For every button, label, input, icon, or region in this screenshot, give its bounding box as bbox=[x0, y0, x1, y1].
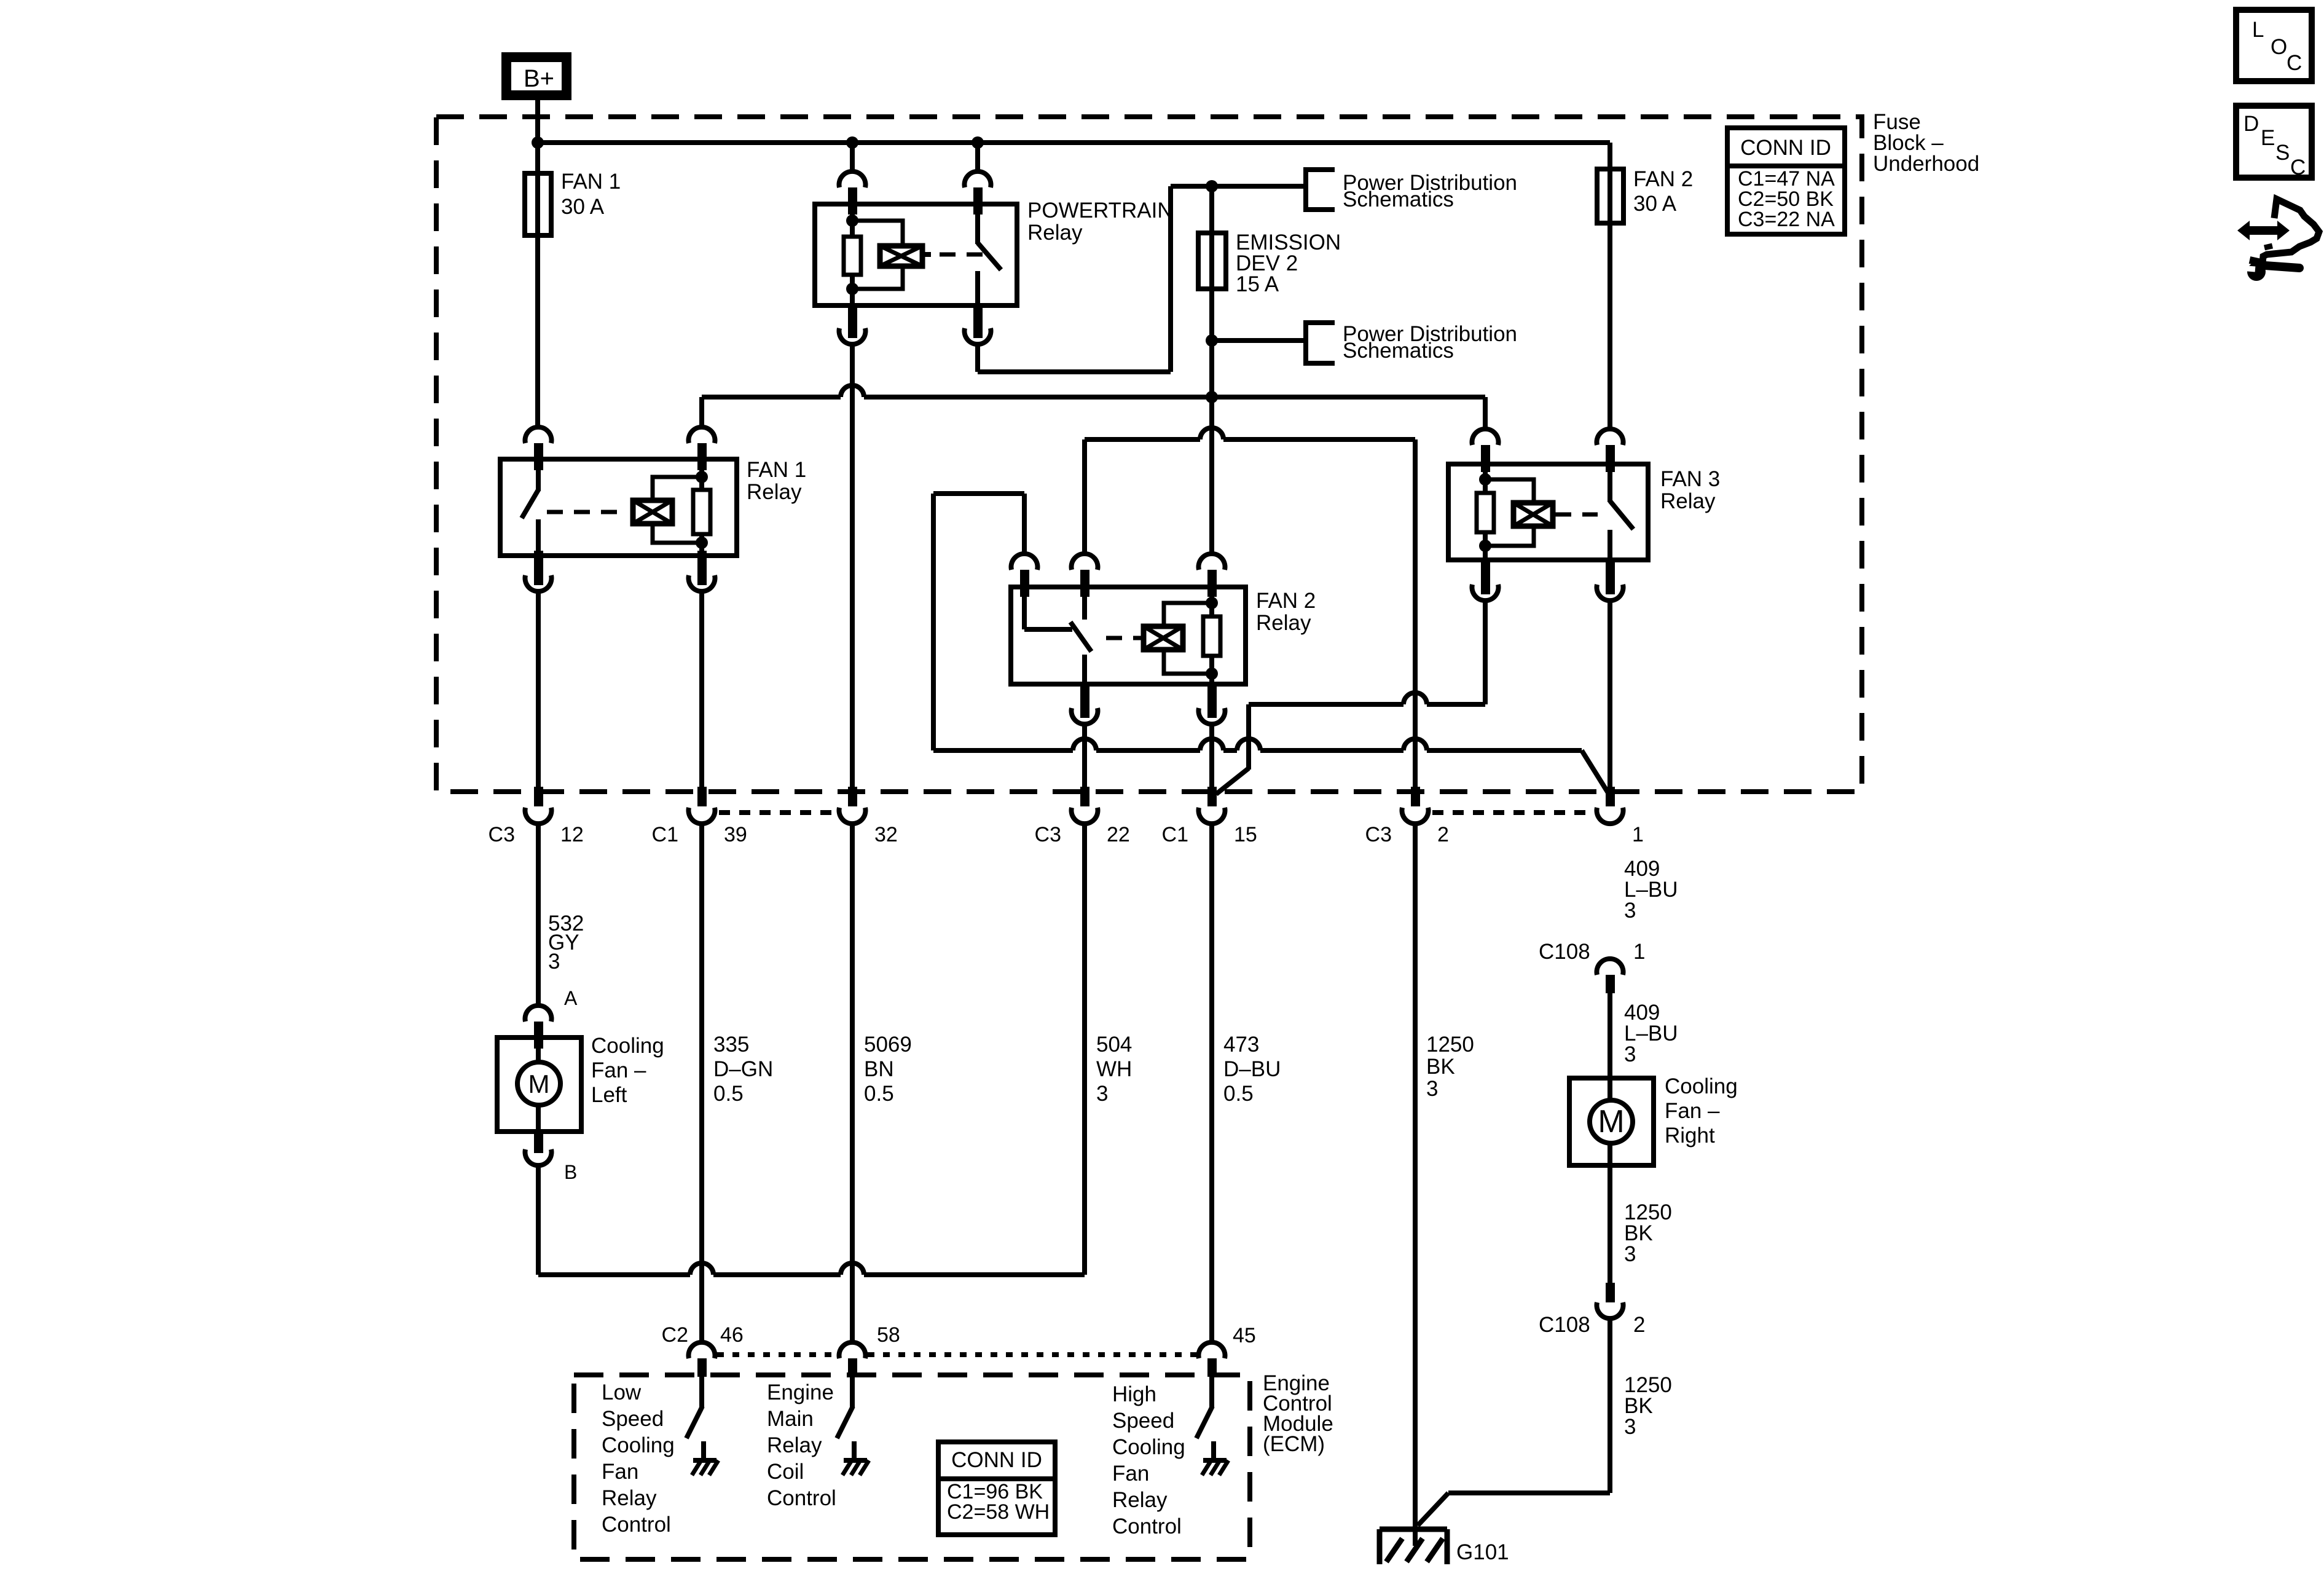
svg-text:E: E bbox=[2261, 126, 2275, 150]
svg-text:Low: Low bbox=[602, 1380, 642, 1404]
svg-text:Fan: Fan bbox=[1112, 1462, 1149, 1486]
svg-text:3: 3 bbox=[1624, 1042, 1636, 1066]
svg-text:Cooling: Cooling bbox=[591, 1034, 664, 1058]
svg-text:High: High bbox=[1112, 1382, 1156, 1406]
svg-text:Relay: Relay bbox=[767, 1433, 822, 1457]
svg-text:L: L bbox=[2252, 18, 2264, 42]
svg-text:Relay: Relay bbox=[602, 1486, 657, 1510]
svg-text:Cooling: Cooling bbox=[1112, 1435, 1185, 1459]
svg-text:3: 3 bbox=[1096, 1082, 1108, 1106]
svg-text:FAN 2: FAN 2 bbox=[1633, 167, 1693, 191]
svg-text:FAN 1: FAN 1 bbox=[561, 170, 621, 194]
svg-text:Underhood: Underhood bbox=[1873, 152, 1979, 176]
svg-text:Fan: Fan bbox=[602, 1460, 638, 1484]
svg-text:0.5: 0.5 bbox=[1223, 1082, 1254, 1106]
svg-text:1250: 1250 bbox=[1426, 1033, 1474, 1057]
svg-text:473: 473 bbox=[1223, 1033, 1259, 1057]
svg-text:Relay: Relay bbox=[1660, 489, 1716, 513]
svg-text:D–GN: D–GN bbox=[713, 1057, 773, 1081]
svg-text:M: M bbox=[528, 1069, 550, 1098]
svg-text:0.5: 0.5 bbox=[864, 1082, 894, 1106]
svg-text:D–BU: D–BU bbox=[1223, 1057, 1281, 1081]
svg-text:C108: C108 bbox=[1539, 940, 1590, 964]
svg-text:C3: C3 bbox=[1365, 823, 1392, 846]
svg-text:FAN 2: FAN 2 bbox=[1256, 589, 1316, 613]
svg-text:5069: 5069 bbox=[864, 1033, 912, 1057]
svg-text:3: 3 bbox=[548, 950, 560, 974]
svg-text:Control: Control bbox=[602, 1513, 671, 1537]
svg-text:30 A: 30 A bbox=[561, 195, 605, 219]
svg-text:C3: C3 bbox=[489, 823, 515, 846]
svg-text:CONN ID: CONN ID bbox=[1740, 136, 1831, 160]
svg-text:WH: WH bbox=[1096, 1057, 1132, 1081]
svg-text:Relay: Relay bbox=[1112, 1488, 1168, 1512]
svg-text:C108: C108 bbox=[1539, 1313, 1590, 1337]
svg-text:A: A bbox=[564, 987, 578, 1009]
svg-text:B+: B+ bbox=[524, 65, 554, 92]
svg-text:Speed: Speed bbox=[1112, 1409, 1174, 1433]
svg-text:C2: C2 bbox=[662, 1323, 688, 1347]
svg-text:CONN ID: CONN ID bbox=[951, 1448, 1042, 1472]
svg-text:B: B bbox=[564, 1161, 577, 1183]
svg-text:2: 2 bbox=[1437, 823, 1449, 846]
svg-text:C: C bbox=[2290, 156, 2306, 179]
svg-text:58: 58 bbox=[877, 1323, 900, 1347]
svg-text:Relay: Relay bbox=[747, 480, 802, 504]
svg-text:Cooling: Cooling bbox=[1665, 1074, 1738, 1098]
svg-text:1: 1 bbox=[1633, 940, 1645, 964]
svg-text:3: 3 bbox=[1426, 1077, 1438, 1101]
svg-text:C3: C3 bbox=[1035, 823, 1061, 846]
svg-text:30 A: 30 A bbox=[1633, 192, 1677, 216]
svg-text:3: 3 bbox=[1624, 1415, 1636, 1439]
svg-text:335: 335 bbox=[713, 1033, 749, 1057]
svg-text:BK: BK bbox=[1426, 1055, 1455, 1079]
svg-text:Coil: Coil bbox=[767, 1460, 804, 1484]
svg-text:3: 3 bbox=[1624, 1242, 1636, 1266]
svg-text:0.5: 0.5 bbox=[713, 1082, 744, 1106]
svg-text:BN: BN bbox=[864, 1057, 894, 1081]
svg-text:46: 46 bbox=[720, 1323, 744, 1347]
svg-text:Control: Control bbox=[1112, 1514, 1182, 1538]
svg-text:Schematics: Schematics bbox=[1343, 339, 1454, 363]
svg-text:504: 504 bbox=[1096, 1033, 1132, 1057]
svg-text:C1: C1 bbox=[1162, 823, 1188, 846]
svg-text:Left: Left bbox=[591, 1083, 627, 1107]
svg-text:Relay: Relay bbox=[1256, 611, 1311, 635]
svg-text:C3=22 NA: C3=22 NA bbox=[1738, 208, 1835, 231]
svg-text:39: 39 bbox=[724, 823, 747, 846]
svg-text:FAN 1: FAN 1 bbox=[747, 458, 806, 482]
svg-text:Fan –: Fan – bbox=[591, 1058, 646, 1082]
svg-text:FAN 3: FAN 3 bbox=[1660, 467, 1720, 491]
svg-text:1: 1 bbox=[1632, 823, 1644, 846]
svg-text:3: 3 bbox=[1624, 899, 1636, 923]
svg-text:45: 45 bbox=[1233, 1324, 1256, 1347]
svg-text:12: 12 bbox=[560, 823, 584, 846]
svg-text:C2=58 WH: C2=58 WH bbox=[947, 1500, 1050, 1524]
svg-text:32: 32 bbox=[874, 823, 898, 846]
svg-text:15 A: 15 A bbox=[1236, 272, 1279, 296]
svg-text:POWERTRAIN: POWERTRAIN bbox=[1027, 199, 1173, 222]
svg-text:D: D bbox=[2244, 112, 2259, 136]
svg-text:Relay: Relay bbox=[1027, 221, 1083, 245]
svg-text:22: 22 bbox=[1107, 823, 1130, 846]
svg-text:M: M bbox=[1598, 1104, 1624, 1140]
svg-text:Main: Main bbox=[767, 1407, 814, 1431]
svg-text:C: C bbox=[2287, 51, 2302, 75]
svg-text:O: O bbox=[2271, 35, 2287, 59]
svg-text:Right: Right bbox=[1665, 1124, 1715, 1148]
svg-text:(ECM): (ECM) bbox=[1263, 1432, 1325, 1456]
svg-text:Schematics: Schematics bbox=[1343, 187, 1454, 211]
svg-text:Fan –: Fan – bbox=[1665, 1099, 1720, 1123]
svg-text:Cooling: Cooling bbox=[602, 1433, 675, 1457]
svg-text:C1: C1 bbox=[652, 823, 678, 846]
svg-text:Control: Control bbox=[767, 1486, 836, 1510]
svg-text:15: 15 bbox=[1234, 823, 1257, 846]
svg-text:Engine: Engine bbox=[767, 1380, 834, 1404]
svg-text:2: 2 bbox=[1633, 1313, 1645, 1337]
svg-text:S: S bbox=[2275, 141, 2290, 165]
svg-text:Speed: Speed bbox=[602, 1407, 664, 1431]
svg-text:G101: G101 bbox=[1456, 1540, 1509, 1564]
